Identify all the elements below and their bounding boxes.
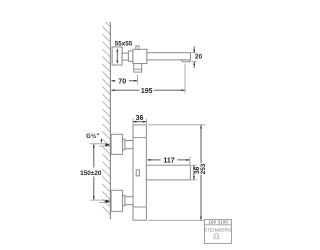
aerator below spout body <box>134 64 142 73</box>
handle dim 36 extension lines <box>191 164 196 166</box>
dim 70 extension tick <box>137 75 139 84</box>
dim 150+-20 line <box>93 144 95 167</box>
dim 70 line <box>112 80 116 82</box>
dim 36 top line <box>133 121 146 123</box>
upper inlet flange <box>111 134 123 154</box>
dim 253 extension lines <box>148 124 205 126</box>
title block box <box>205 220 232 244</box>
svg-text:STEINBERG: STEINBERG <box>204 228 232 233</box>
dim 20 arrows <box>193 46 195 52</box>
svg-text:20: 20 <box>195 54 203 61</box>
lower inlet centre lines <box>90 199 111 201</box>
wall line <box>109 22 111 219</box>
lower inlet wall arrow <box>105 200 110 203</box>
lower inlet washer <box>123 195 125 206</box>
svg-text:160 3100: 160 3100 <box>208 220 228 225</box>
svg-text:253: 253 <box>200 163 207 174</box>
dim 195 line <box>112 89 140 91</box>
lower inlet block <box>125 197 133 205</box>
spout collar <box>128 51 133 61</box>
spout wall flange <box>112 47 122 65</box>
mixer body <box>133 125 146 220</box>
mixer body top cap line <box>133 137 146 139</box>
upper inlet wall arrow <box>105 143 110 146</box>
brand glyph <box>213 233 219 239</box>
G1/2 leader arrow <box>100 139 102 140</box>
label 36 handle (rotated) <box>195 166 200 174</box>
label 253 (rotated) <box>200 163 205 175</box>
dim 36 top extension lines <box>132 119 134 125</box>
upper inlet washer <box>123 139 125 150</box>
title block divider <box>205 224 232 226</box>
label 150+-20 <box>81 169 102 177</box>
knob on spout body <box>136 46 139 49</box>
svg-text:36: 36 <box>136 115 144 122</box>
svg-text:G½″: G½″ <box>86 133 99 140</box>
handle dim 36 line <box>193 165 195 179</box>
button on mixer body <box>136 170 139 176</box>
dim 195 extension line <box>184 64 186 94</box>
spout outlet nub <box>181 60 190 62</box>
aerator ring line <box>134 68 142 70</box>
spout neck <box>122 53 128 60</box>
svg-text:117: 117 <box>163 158 174 165</box>
handle <box>146 165 190 180</box>
lower inlet flange <box>111 190 123 211</box>
wall hatching <box>102 22 110 215</box>
upper inlet block <box>125 141 133 149</box>
upper inlet centre lines <box>90 143 111 145</box>
dim 253 line <box>200 125 202 220</box>
svg-text:70: 70 <box>118 79 126 86</box>
spout valve body <box>133 49 147 63</box>
dim 117 line <box>147 159 160 161</box>
dim 117 extension line <box>189 156 191 164</box>
svg-text:195: 195 <box>141 88 153 95</box>
spout tube <box>147 53 191 60</box>
svg-text:150±20: 150±20 <box>80 170 102 177</box>
dim 20 extension lines <box>192 52 197 54</box>
55 height arrow inside flange <box>116 50 118 63</box>
svg-text:55x55: 55x55 <box>115 40 133 47</box>
mixer body bottom cap line <box>133 206 146 208</box>
